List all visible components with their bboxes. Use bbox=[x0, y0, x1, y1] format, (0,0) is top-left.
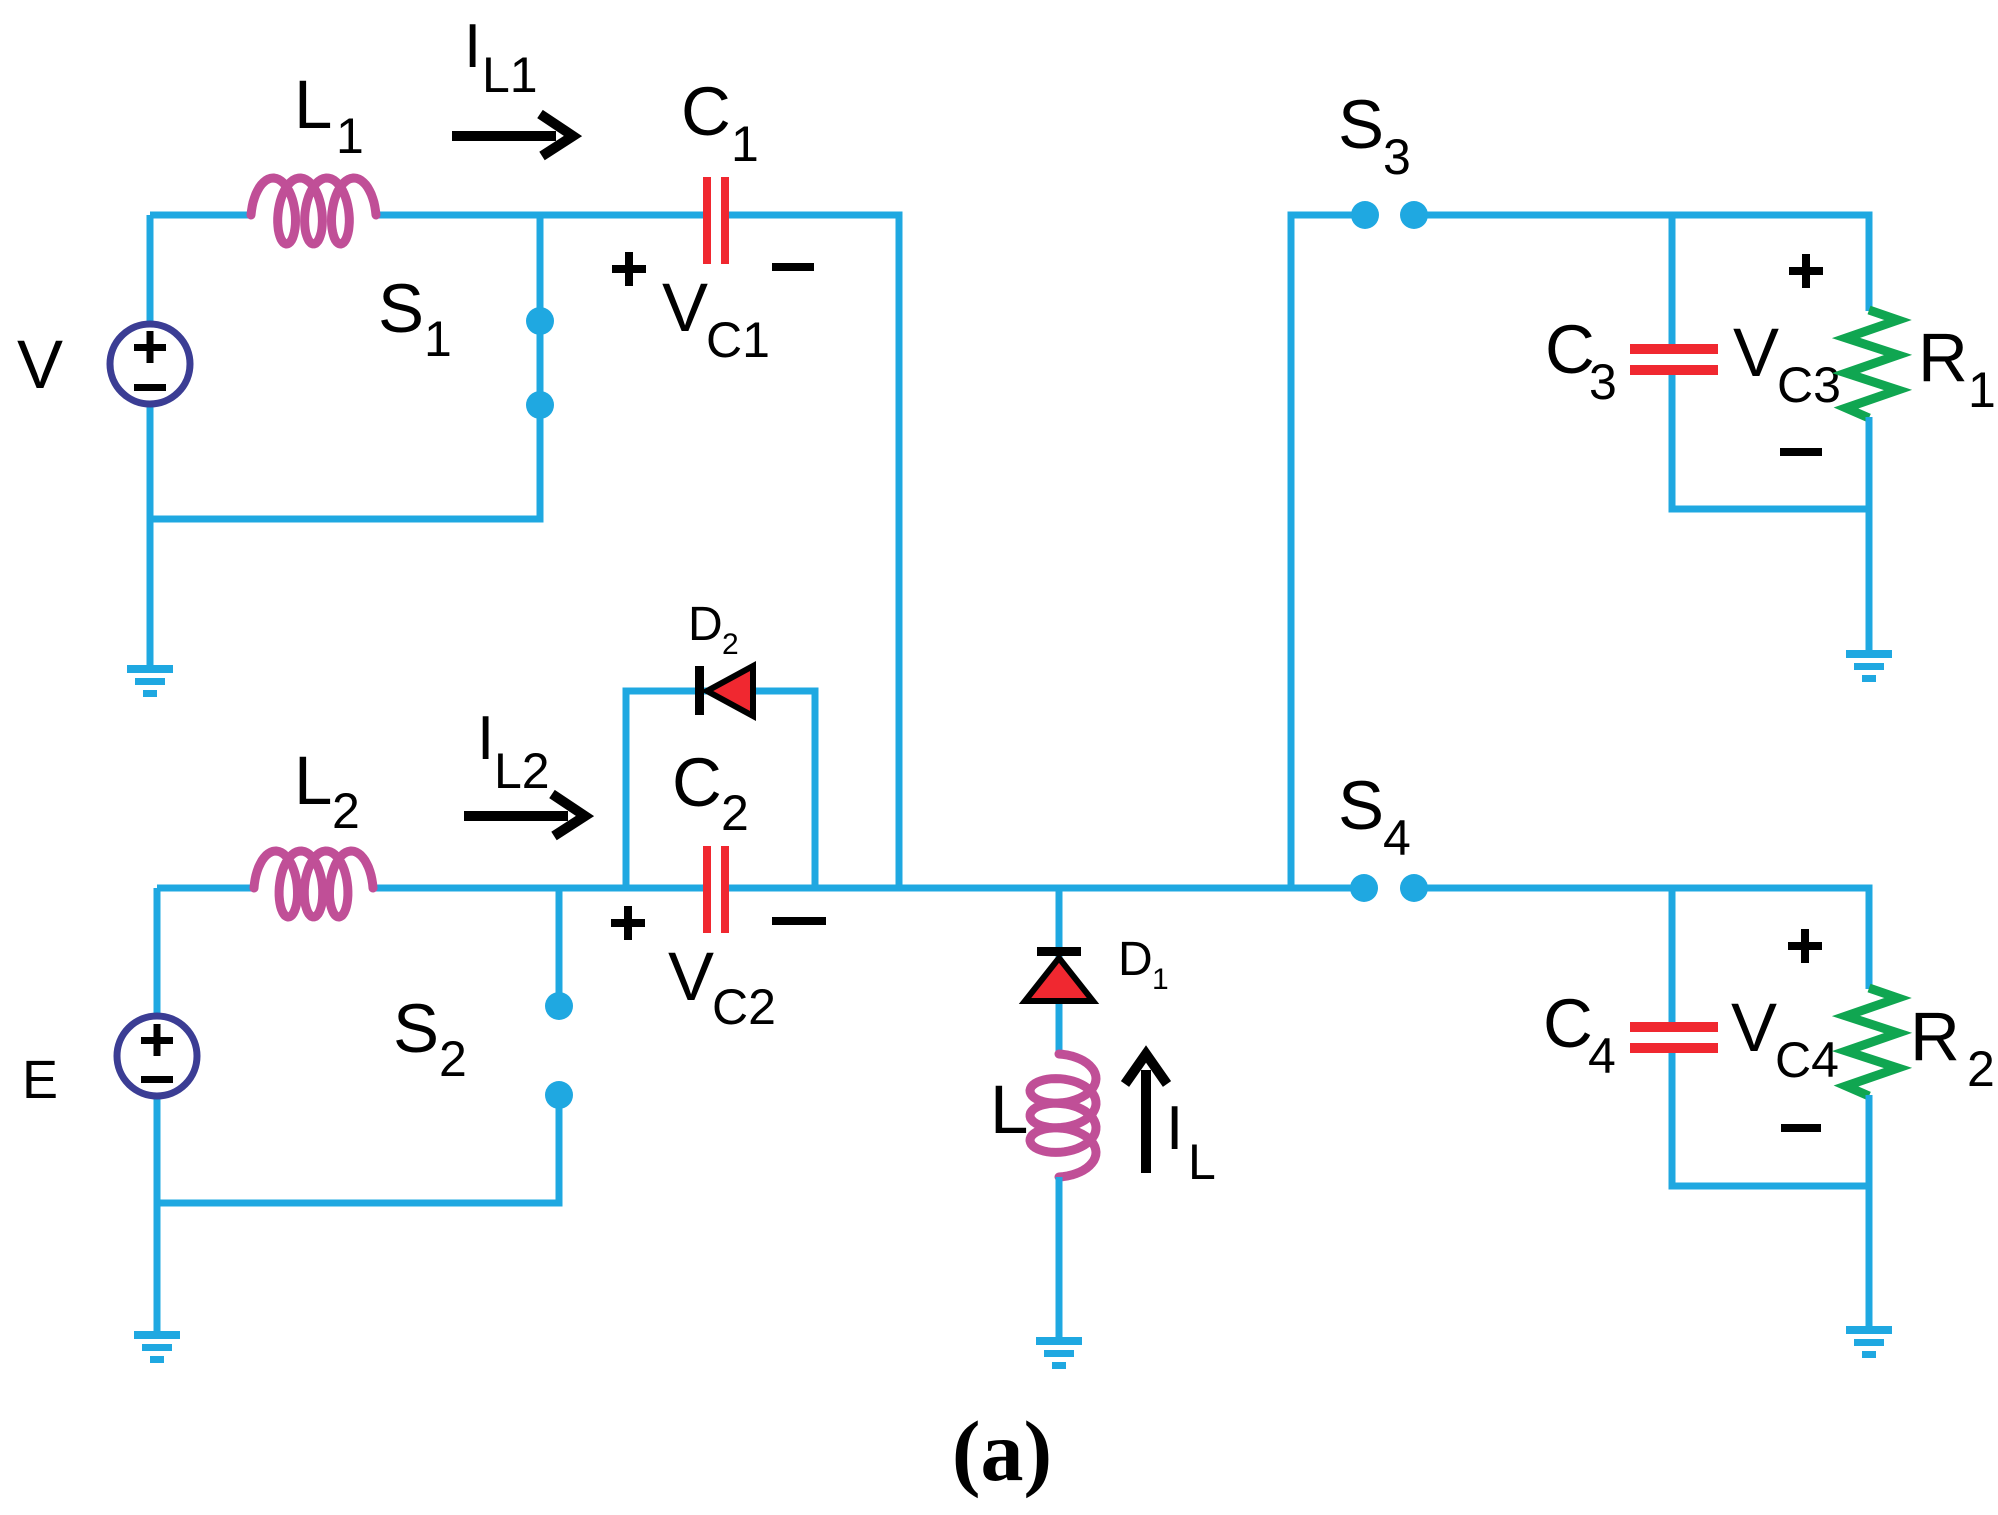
svg-text:V: V bbox=[17, 326, 63, 403]
wire R1 bottom lead bbox=[1866, 417, 1873, 651]
capacitor C1 bbox=[703, 177, 729, 264]
svg-text:D: D bbox=[688, 598, 723, 651]
svg-text:R: R bbox=[1918, 319, 1968, 396]
wire bus L2 to C2 bbox=[371, 885, 703, 892]
svg-text:L2: L2 bbox=[494, 743, 550, 799]
minus (C3) bbox=[1780, 448, 1822, 456]
capacitor C2 bbox=[703, 846, 729, 933]
svg-text:I: I bbox=[464, 12, 481, 81]
wire R1 top lead bbox=[1866, 212, 1873, 312]
svg-text:1: 1 bbox=[1968, 362, 1996, 418]
svg-text:3: 3 bbox=[1383, 129, 1411, 185]
svg-text:C: C bbox=[1545, 311, 1595, 388]
ground (below E) bbox=[134, 1331, 180, 1363]
wire S3 rail right bbox=[1427, 212, 1869, 219]
svg-text:S: S bbox=[378, 270, 424, 347]
svg-text:2: 2 bbox=[1967, 1041, 1995, 1097]
svg-text:I: I bbox=[477, 704, 494, 773]
ground (below V) bbox=[127, 665, 173, 697]
wire D2 right leg bbox=[812, 691, 819, 892]
minus (C2) bbox=[772, 917, 826, 925]
wire D2 left leg bbox=[623, 691, 630, 892]
minus (C4) bbox=[1781, 1124, 1821, 1132]
wire D2 top bbox=[623, 688, 819, 695]
svg-text:L: L bbox=[1188, 1134, 1216, 1190]
svg-text:C: C bbox=[681, 73, 731, 150]
wire D1 branch vertical bbox=[1056, 888, 1063, 1056]
switch S1 (closed) bbox=[537, 215, 544, 519]
svg-text:C1: C1 bbox=[706, 312, 770, 368]
svg-text:2: 2 bbox=[722, 628, 739, 661]
plus (C3) bbox=[1789, 254, 1823, 288]
svg-text:E: E bbox=[22, 1050, 58, 1110]
capacitor C4 bbox=[1630, 1022, 1718, 1053]
wire C3 top lead bbox=[1669, 212, 1676, 346]
inductor L1 bbox=[251, 178, 376, 244]
wire L bottom lead bbox=[1056, 1177, 1063, 1339]
svg-text:R: R bbox=[1910, 998, 1960, 1075]
wire S3 left drop to bus bbox=[1288, 212, 1295, 889]
svg-text:3: 3 bbox=[1589, 354, 1617, 410]
wire C3 bottom lead bbox=[1669, 375, 1676, 513]
wire C3/R1 bottom bbox=[1672, 506, 1873, 513]
svg-text:1: 1 bbox=[336, 108, 364, 164]
svg-text:1: 1 bbox=[1152, 963, 1169, 996]
resistor R2 bbox=[1846, 988, 1898, 1096]
arrow I_L bbox=[1125, 1054, 1167, 1173]
wire bus E to L2 bbox=[157, 885, 256, 892]
plus (C2) bbox=[611, 906, 645, 940]
svg-text:D: D bbox=[1118, 933, 1153, 986]
svg-text:4: 4 bbox=[1383, 810, 1411, 866]
diode D1 bbox=[1025, 947, 1093, 1001]
inductor L2 bbox=[254, 851, 373, 917]
svg-text:L1: L1 bbox=[482, 47, 538, 103]
ground (below R1) bbox=[1846, 650, 1892, 682]
wire bus S4 to R2 corner bbox=[1427, 885, 1869, 892]
capacitor C3 bbox=[1630, 344, 1718, 375]
switch S2 (open) bbox=[556, 888, 563, 1006]
wire E source top lead bbox=[154, 888, 161, 1017]
svg-text:V: V bbox=[668, 938, 714, 1015]
svg-text:(a): (a) bbox=[952, 1403, 1052, 1499]
inductor L bbox=[1030, 1054, 1096, 1177]
svg-text:1: 1 bbox=[731, 116, 759, 172]
wire top rail C1 to corner bbox=[729, 212, 899, 219]
arrow I_L1 bbox=[452, 114, 573, 156]
minus (C1) bbox=[772, 263, 814, 271]
svg-text:C: C bbox=[672, 744, 722, 821]
svg-text:S: S bbox=[393, 990, 439, 1067]
svg-text:L: L bbox=[990, 1071, 1028, 1148]
svg-text:2: 2 bbox=[439, 1031, 467, 1087]
svg-text:4: 4 bbox=[1588, 1028, 1616, 1084]
svg-text:S: S bbox=[1338, 86, 1384, 163]
wire top rail V to L1 bbox=[150, 212, 253, 219]
svg-text:C4: C4 bbox=[1775, 1032, 1839, 1088]
voltage source V bbox=[110, 324, 190, 404]
plus (C4) bbox=[1788, 929, 1822, 963]
svg-text:2: 2 bbox=[721, 785, 749, 841]
switch S4 (open) bbox=[1350, 874, 1378, 902]
wire top rail L1 to C1 bbox=[374, 212, 703, 219]
wire E source bottom lead bbox=[154, 1095, 161, 1333]
svg-text:C: C bbox=[1543, 985, 1593, 1062]
svg-text:C2: C2 bbox=[712, 979, 776, 1035]
wire S2 bottom horizontal bbox=[157, 1200, 563, 1207]
resistor R1 bbox=[1846, 310, 1898, 418]
svg-text:C3: C3 bbox=[1777, 357, 1841, 413]
plus (C1) bbox=[612, 252, 646, 286]
wire C1 right drop to bus bbox=[896, 212, 903, 889]
arrow I_L2 bbox=[464, 794, 585, 836]
svg-text:2: 2 bbox=[332, 783, 360, 839]
svg-text:V: V bbox=[662, 269, 708, 346]
ground (below R2) bbox=[1846, 1326, 1892, 1358]
wire bus C2 to S4 bbox=[729, 885, 1352, 892]
wire C4/R2 bottom bbox=[1672, 1183, 1873, 1190]
diode D2 bbox=[695, 666, 753, 716]
voltage source E bbox=[117, 1016, 197, 1096]
wire R2 bottom lead bbox=[1866, 1095, 1873, 1328]
switch S3 (open) bbox=[1351, 201, 1379, 229]
wire S3 rail left bbox=[1291, 212, 1352, 219]
wire S1 bottom horizontal bbox=[150, 516, 544, 523]
wire C4 top lead bbox=[1669, 885, 1676, 1023]
svg-text:S: S bbox=[1338, 767, 1384, 844]
svg-text:I: I bbox=[1166, 1094, 1183, 1163]
svg-text:V: V bbox=[1731, 989, 1777, 1066]
svg-text:V: V bbox=[1733, 314, 1779, 391]
svg-text:L: L bbox=[294, 66, 332, 143]
wire R2 top lead bbox=[1866, 885, 1873, 990]
wire C4 bottom lead bbox=[1669, 1053, 1676, 1190]
wire V source top lead bbox=[147, 215, 154, 325]
svg-text:L: L bbox=[294, 742, 332, 819]
svg-text:1: 1 bbox=[424, 311, 452, 367]
wire V source bottom lead bbox=[147, 403, 154, 667]
ground (below L) bbox=[1036, 1337, 1082, 1369]
